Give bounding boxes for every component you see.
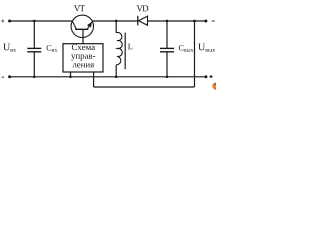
label plus output: [209, 75, 212, 78]
diode VD: [138, 16, 148, 26]
wire bottom rail: [10, 76, 206, 78]
node junction L top: [115, 20, 118, 23]
node junction block ground: [69, 75, 72, 78]
orange bullet artifact: [213, 83, 220, 90]
node junction Cout top: [166, 20, 169, 23]
inductor L winding: [116, 32, 122, 64]
label Cin: [47, 45, 58, 52]
wire Cout bottom lead: [166, 52, 168, 77]
wire feedback horizontal bottom: [94, 86, 195, 88]
wire feedback vertical right: [194, 21, 196, 87]
label VD: [137, 5, 149, 11]
wire control block left pin to ground: [70, 72, 72, 77]
wire top rail left segment: [10, 20, 73, 22]
label minus output: [212, 20, 215, 22]
wire top rail middle segment (VT to VD): [92, 20, 137, 22]
wire Cin bottom lead: [33, 52, 35, 77]
label plus input: [1, 20, 4, 23]
wire control block right pin down: [93, 72, 95, 87]
node terminal dot bottom-right: [204, 75, 207, 78]
node junction L bottom: [115, 75, 118, 78]
control block rectangle: [63, 44, 103, 72]
capacitor C1 Cin: [27, 48, 41, 51]
label Uout: [198, 44, 215, 52]
capacitor C2 Cout: [160, 48, 174, 51]
label L: [128, 44, 132, 50]
label Cout: [179, 45, 194, 52]
wire VT base lead: [82, 29, 84, 43]
node junction Cin bottom: [33, 75, 36, 78]
wire L bottom lead: [115, 65, 117, 77]
node junction Cin top: [33, 20, 36, 23]
label Uin: [3, 44, 16, 52]
node terminal dot top-right: [204, 20, 207, 23]
node terminal dot bottom-left: [8, 75, 11, 78]
wire Cout top lead: [166, 21, 168, 48]
wire L top lead: [115, 21, 117, 33]
wire top rail right segment (VD to output): [148, 20, 206, 22]
transistor VT: [71, 15, 93, 37]
control block text: [71, 44, 95, 67]
node terminal dot top-left: [8, 20, 11, 23]
wire Cin top lead: [33, 21, 35, 48]
label minus input: [2, 76, 4, 78]
node junction Cout bottom: [166, 75, 169, 78]
inductor L core line: [124, 33, 126, 70]
node junction feedback top: [193, 20, 196, 23]
label VT: [74, 5, 85, 11]
